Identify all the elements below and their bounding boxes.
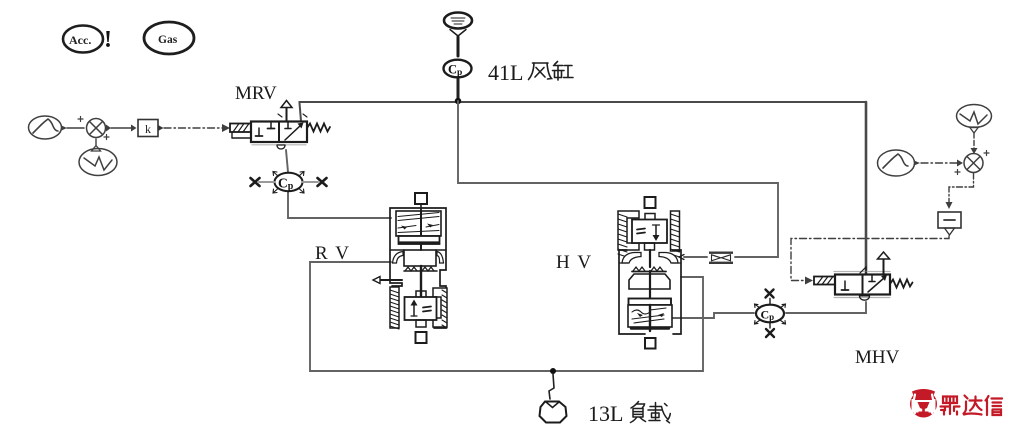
RV seat teeth [404, 267, 437, 271]
svg-text:!: ! [104, 27, 112, 53]
HV shoulder brackets [622, 253, 641, 264]
holding valve HV assembly [618, 197, 684, 349]
svg-text:13L: 13L [588, 401, 623, 426]
RV body outline [390, 208, 446, 328]
MHV right cell flow path arrow [868, 275, 887, 292]
wire: HV bottom-right port to Cp3 [672, 313, 754, 318]
signal source S4 (right waveform) [878, 150, 921, 176]
HV piston bar [629, 299, 672, 306]
Cp1 side stubs [259, 181, 275, 183]
signal source S3 (top right waveform) [957, 105, 992, 155]
svg-text:H V: H V [556, 252, 591, 273]
wire: junction down, across to right, down to orifice level [458, 101, 778, 257]
wire: MRV bottom port to chamber Cp1 [286, 150, 288, 172]
wire: RV left port loop down to bottom bus [310, 262, 703, 371]
Cp3 corner port arrows [755, 304, 786, 324]
Cp3 blocked X bottom [766, 329, 774, 337]
HV spool [629, 274, 670, 289]
node junction at 41L line [455, 98, 461, 104]
MHV spring [890, 280, 913, 288]
chamber Cp2 (41L reservoir) [444, 60, 472, 78]
RV shoulder brackets [393, 252, 404, 264]
wire: dash-dot converter to MHV solenoid [791, 236, 949, 285]
Cp1 blocked X left [251, 178, 260, 186]
logo mark (red, bottom right) [910, 389, 937, 418]
MRV tiny port marks [278, 114, 307, 117]
HV right port arrow [679, 255, 684, 260]
svg-text:Acc.: Acc. [69, 33, 91, 47]
MHV valve body [835, 275, 890, 295]
MHV bottom port mark [860, 296, 870, 300]
载 [650, 403, 661, 411]
multiplier (right X-circle) [955, 151, 989, 175]
MRV body shadow line [252, 144, 306, 146]
MHV exhaust arrow [878, 252, 890, 274]
MRV spring [307, 124, 330, 132]
gauge sensor (top) [444, 13, 472, 57]
达 [964, 396, 968, 414]
Cp3 blocked X top [766, 290, 774, 298]
RV spool chamber [390, 249, 446, 251]
RV left return spring column [390, 287, 399, 329]
MHV left cell blocked ports [842, 281, 849, 290]
relay valve RV assembly [373, 193, 447, 343]
MRV bottom port mark [277, 145, 285, 149]
wire: gauge/Cp stack down to junction [457, 78, 460, 101]
svg-text:MHV: MHV [855, 347, 900, 368]
wire: dash-dot multiplier down to converter [946, 173, 974, 209]
wire: dash-dot S4 to multiplier [921, 162, 960, 164]
signal source S1 (left waveform) [29, 116, 68, 139]
HV lower diaphragm chamber [628, 305, 672, 327]
hanzi 风缸 (air cylinder) [529, 62, 574, 81]
icon Acc! (top left) [63, 26, 112, 54]
wire: summer to gain box [111, 125, 137, 132]
MRV left cell blocked ports [256, 122, 275, 136]
gauge funnel [450, 30, 466, 37]
Cp3 stubs up/down [769, 299, 771, 305]
风 [533, 62, 549, 64]
wire: MRV top to right vertical (main supply line) [300, 102, 867, 274]
summer (signal junction X-circle) [78, 117, 111, 140]
RV exhaust arrow (left) [373, 277, 402, 284]
wire: junction to load mass [549, 374, 554, 399]
HV poppet valve box [645, 214, 655, 221]
RV poppet valve box [416, 291, 426, 298]
Cp1 blocked X right [318, 178, 327, 186]
load mass (13L) [540, 402, 567, 423]
signal source S2 (lower waveform) [79, 139, 117, 176]
Cp1 corner port arrows [273, 172, 304, 194]
signal converter block [938, 212, 961, 235]
负 [631, 402, 645, 409]
信 [986, 396, 989, 415]
MHV solenoid actuator [814, 277, 835, 285]
HV seat teeth [632, 267, 666, 272]
wire: dash-dot control line k to MRV solenoid [164, 124, 230, 132]
gain block k [138, 120, 164, 137]
chamber Cp3 (pilot chamber near MHV) [755, 290, 786, 338]
MHV top port mark [860, 267, 866, 273]
RV top pipe square [415, 193, 427, 204]
MRV valve body [251, 122, 307, 143]
MRV exhaust arrow (port 3) [281, 101, 292, 122]
svg-text:41L: 41L [488, 60, 523, 85]
wire: Cp1 down then right into RV top-left port [288, 192, 391, 219]
valve MHV [814, 252, 913, 300]
hanzi 负载 (load) [631, 402, 671, 423]
HV right spring column [671, 211, 680, 257]
HV bottom pipe square [645, 338, 656, 349]
鼎 [943, 397, 957, 404]
orifice (restrictor between HV and supply line) [709, 252, 733, 265]
svg-text:R V: R V [315, 243, 349, 264]
wire: Cp3 to MHV bottom port [786, 302, 866, 313]
RV piston [399, 236, 440, 244]
valve MRV [230, 101, 330, 150]
wire: S1 to summer [67, 127, 84, 129]
MRV solenoid actuator [230, 124, 251, 139]
RV right bracket column [433, 288, 447, 328]
HV left spring bracket [618, 211, 639, 257]
svg-text:MRV: MRV [235, 83, 277, 104]
svg-text:k: k [145, 122, 151, 136]
node: bottom bus junction to load [550, 368, 556, 374]
HV body outline [619, 250, 681, 334]
MRV right cell flow path arrow [285, 123, 304, 141]
logo text 鼎达信 (red) [941, 396, 1003, 416]
HV top pipe square [645, 197, 656, 208]
MHV body shadow lines [834, 271, 890, 273]
RV bottom pipe square [416, 332, 427, 343]
icon Gas [144, 22, 194, 54]
chamber Cp1 (below MRV) [251, 172, 327, 194]
svg-text:Gas: Gas [158, 34, 178, 46]
RV upper chamber (pilot spring) [396, 211, 441, 236]
缸 [553, 62, 565, 81]
